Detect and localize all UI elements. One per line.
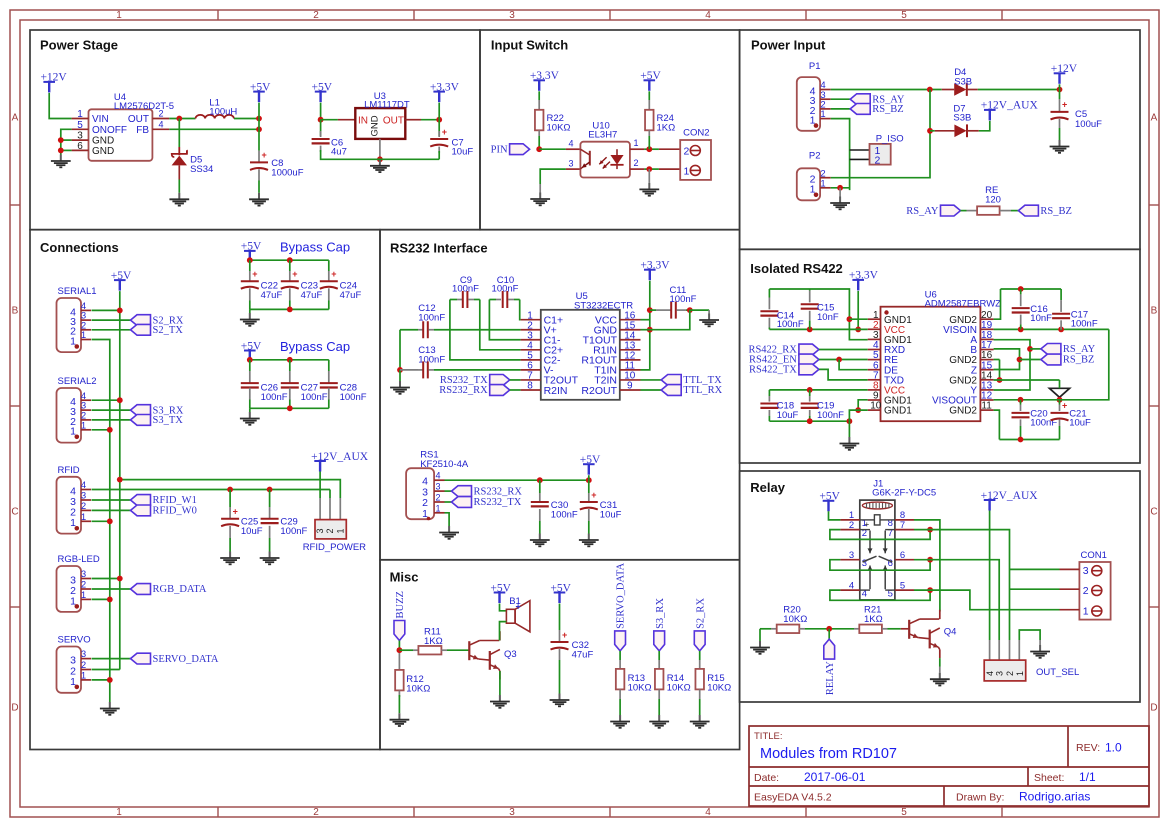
- svg-text:RFID: RFID: [58, 465, 80, 476]
- svg-text:2: 2: [81, 501, 86, 512]
- svg-text:3: 3: [509, 10, 515, 21]
- svg-text:+: +: [1062, 100, 1067, 110]
- svg-text:1: 1: [81, 590, 86, 601]
- svg-text:+: +: [252, 269, 257, 279]
- svg-text:+: +: [562, 630, 567, 640]
- svg-text:4u7: 4u7: [331, 146, 347, 157]
- svg-text:Bypass Cap: Bypass Cap: [280, 339, 350, 354]
- svg-text:10nF: 10nF: [1030, 313, 1052, 324]
- svg-text:10KΩ: 10KΩ: [547, 122, 571, 133]
- svg-text:100nF: 100nF: [492, 284, 519, 295]
- svg-text:4: 4: [435, 471, 440, 481]
- svg-text:SERIAL1: SERIAL1: [58, 286, 97, 297]
- svg-text:100nF: 100nF: [817, 410, 844, 421]
- svg-text:2: 2: [81, 660, 86, 671]
- svg-text:Connections: Connections: [40, 240, 119, 255]
- svg-text:4: 4: [81, 480, 86, 491]
- svg-text:10KΩ: 10KΩ: [406, 684, 430, 695]
- svg-text:4: 4: [705, 10, 711, 21]
- svg-text:CON2: CON2: [683, 128, 709, 139]
- svg-text:LM1117DT: LM1117DT: [364, 100, 410, 111]
- svg-text:2: 2: [633, 158, 638, 168]
- svg-text:FB: FB: [136, 125, 149, 136]
- svg-text:+: +: [1062, 401, 1067, 411]
- svg-text:2: 2: [1005, 671, 1015, 676]
- svg-text:+: +: [331, 269, 336, 279]
- svg-text:PIN: PIN: [491, 144, 508, 155]
- svg-text:10KΩ: 10KΩ: [707, 683, 731, 694]
- svg-text:P1: P1: [809, 61, 821, 72]
- svg-text:3: 3: [81, 569, 86, 580]
- svg-text:GND2: GND2: [949, 406, 977, 417]
- svg-text:10uF: 10uF: [1069, 418, 1091, 429]
- svg-text:OUT_SEL: OUT_SEL: [1036, 667, 1079, 678]
- svg-text:Power Input: Power Input: [751, 38, 826, 53]
- svg-text:Power Stage: Power Stage: [40, 38, 118, 53]
- svg-text:1: 1: [81, 512, 86, 523]
- svg-text:Rodrigo.arias: Rodrigo.arias: [1019, 790, 1090, 804]
- svg-text:B: B: [12, 306, 19, 317]
- svg-text:1: 1: [81, 671, 86, 682]
- svg-text:10uF: 10uF: [600, 510, 622, 521]
- svg-text:1: 1: [435, 503, 440, 513]
- svg-text:Relay: Relay: [750, 480, 785, 495]
- svg-text:LM2576D2T-5: LM2576D2T-5: [114, 101, 174, 112]
- svg-text:5: 5: [77, 120, 83, 131]
- svg-text:SS34: SS34: [190, 164, 213, 175]
- svg-text:10uF: 10uF: [241, 526, 263, 537]
- svg-text:2: 2: [81, 580, 86, 591]
- svg-text:Input Switch: Input Switch: [491, 38, 568, 53]
- svg-text:8: 8: [527, 381, 533, 392]
- svg-text:4: 4: [705, 807, 711, 818]
- svg-text:RS_BZ: RS_BZ: [1040, 206, 1072, 217]
- svg-text:SERIAL2: SERIAL2: [58, 376, 97, 387]
- svg-text:10KΩ: 10KΩ: [628, 683, 652, 694]
- svg-text:3: 3: [995, 671, 1005, 676]
- svg-text:1: 1: [684, 165, 690, 177]
- svg-text:1: 1: [81, 420, 86, 431]
- svg-text:5: 5: [901, 10, 907, 21]
- svg-text:TITLE:: TITLE:: [754, 731, 783, 742]
- svg-text:100nF: 100nF: [301, 392, 328, 403]
- svg-text:100nF: 100nF: [261, 392, 288, 403]
- svg-text:SERVO_DATA: SERVO_DATA: [616, 562, 627, 628]
- svg-text:47uF: 47uF: [261, 290, 283, 301]
- svg-text:S3_TX: S3_TX: [153, 415, 184, 426]
- svg-text:5: 5: [900, 580, 905, 591]
- svg-text:RS_BZ: RS_BZ: [1063, 355, 1095, 366]
- svg-text:4: 4: [568, 139, 573, 149]
- svg-text:1: 1: [820, 178, 825, 189]
- svg-text:1: 1: [77, 109, 83, 120]
- svg-text:RS232_RX: RS232_RX: [474, 486, 523, 497]
- svg-text:3: 3: [862, 558, 867, 569]
- svg-text:Bypass Cap: Bypass Cap: [280, 240, 350, 255]
- svg-text:2: 2: [158, 109, 163, 119]
- svg-text:RGB-LED: RGB-LED: [58, 554, 100, 565]
- svg-text:RGB_DATA: RGB_DATA: [153, 584, 207, 595]
- svg-text:4: 4: [985, 671, 995, 676]
- svg-text:G6K-2F-Y-DC5: G6K-2F-Y-DC5: [872, 488, 936, 499]
- svg-text:SERVO_DATA: SERVO_DATA: [153, 654, 219, 665]
- svg-text:10uF: 10uF: [452, 146, 474, 157]
- svg-text:C: C: [11, 507, 18, 518]
- svg-text:1KΩ: 1KΩ: [864, 614, 883, 625]
- svg-text:B: B: [1151, 306, 1158, 317]
- svg-text:ADM2587EBRWZ: ADM2587EBRWZ: [925, 299, 1002, 310]
- svg-text:C: C: [1150, 507, 1157, 518]
- svg-text:2: 2: [325, 528, 335, 533]
- svg-text:A: A: [12, 113, 19, 124]
- svg-text:2: 2: [684, 145, 690, 157]
- svg-text:6: 6: [77, 141, 83, 152]
- svg-text:1KΩ: 1KΩ: [657, 122, 676, 133]
- svg-text:Sheet:: Sheet:: [1034, 772, 1064, 784]
- svg-text:47uF: 47uF: [572, 650, 594, 661]
- svg-text:RFID_W0: RFID_W0: [153, 506, 197, 517]
- svg-text:GND: GND: [370, 115, 381, 136]
- svg-text:CON1: CON1: [1081, 550, 1107, 561]
- svg-text:VIN: VIN: [92, 114, 109, 125]
- svg-text:2017-06-01: 2017-06-01: [804, 770, 866, 784]
- svg-text:10nF: 10nF: [817, 312, 839, 323]
- svg-text:47uF: 47uF: [301, 290, 323, 301]
- svg-text:47uF: 47uF: [340, 290, 362, 301]
- svg-text:4: 4: [849, 580, 854, 591]
- svg-text:1: 1: [116, 10, 122, 21]
- svg-text:1: 1: [1083, 605, 1089, 617]
- svg-text:10KΩ: 10KΩ: [667, 683, 691, 694]
- svg-text:2: 2: [313, 10, 319, 21]
- svg-text:100uF: 100uF: [1075, 119, 1102, 130]
- svg-text:1: 1: [1015, 671, 1025, 676]
- svg-text:OUT: OUT: [383, 115, 404, 126]
- svg-text:1: 1: [820, 109, 825, 120]
- svg-text:100nF: 100nF: [452, 284, 479, 295]
- svg-text:TTL_RX: TTL_RX: [683, 385, 722, 396]
- svg-text:P_ISO: P_ISO: [876, 134, 904, 145]
- svg-text:S2_TX: S2_TX: [153, 325, 184, 336]
- svg-text:S3_RX: S3_RX: [655, 598, 666, 629]
- svg-text:100nF: 100nF: [1071, 319, 1098, 330]
- svg-text:3: 3: [315, 528, 325, 533]
- svg-text:EasyEDA V4.5.2: EasyEDA V4.5.2: [754, 792, 832, 804]
- svg-text:100uH: 100uH: [209, 106, 237, 117]
- svg-text:+: +: [516, 602, 521, 612]
- svg-text:D: D: [1150, 703, 1157, 714]
- svg-text:Date:: Date:: [754, 772, 779, 784]
- svg-text:+: +: [442, 127, 447, 137]
- svg-text:P2: P2: [809, 151, 821, 162]
- svg-text:+: +: [292, 269, 297, 279]
- svg-text:100nF: 100nF: [340, 392, 367, 403]
- svg-text:10KΩ: 10KΩ: [783, 614, 807, 625]
- svg-text:1000uF: 1000uF: [271, 167, 303, 178]
- svg-text:GND1: GND1: [884, 406, 912, 417]
- svg-text:1.0: 1.0: [1105, 741, 1122, 755]
- svg-text:RS422_TX: RS422_TX: [749, 365, 797, 376]
- svg-text:RS232_RX: RS232_RX: [439, 385, 488, 396]
- svg-text:7: 7: [900, 520, 905, 531]
- svg-text:120: 120: [985, 194, 1001, 205]
- svg-text:2: 2: [1083, 585, 1089, 597]
- svg-text:9: 9: [627, 381, 633, 392]
- svg-text:100nF: 100nF: [777, 319, 804, 330]
- svg-text:RS232_TX: RS232_TX: [474, 497, 522, 508]
- svg-text:2: 2: [849, 520, 854, 531]
- svg-text:+: +: [591, 490, 596, 500]
- svg-text:11: 11: [981, 401, 992, 412]
- svg-text:3: 3: [435, 482, 440, 492]
- svg-text:2: 2: [875, 155, 881, 167]
- svg-text:1: 1: [81, 330, 86, 341]
- svg-text:1: 1: [116, 807, 122, 818]
- svg-text:RELAY: RELAY: [825, 661, 836, 695]
- svg-text:ONOFF: ONOFF: [92, 125, 127, 136]
- svg-text:3: 3: [81, 649, 86, 660]
- svg-text:1KΩ: 1KΩ: [424, 636, 443, 647]
- svg-text:REV:: REV:: [1076, 742, 1100, 754]
- svg-text:+: +: [262, 150, 267, 160]
- svg-text:+: +: [233, 507, 238, 517]
- svg-text:3: 3: [81, 491, 86, 502]
- svg-text:6: 6: [900, 550, 905, 561]
- svg-text:3: 3: [849, 550, 854, 561]
- svg-text:S3B: S3B: [953, 113, 971, 124]
- svg-text:SERVO: SERVO: [58, 635, 91, 646]
- svg-text:100nF: 100nF: [670, 294, 697, 305]
- svg-text:3: 3: [568, 159, 573, 169]
- svg-text:RS_AY: RS_AY: [906, 206, 939, 217]
- svg-text:4: 4: [158, 119, 163, 129]
- svg-text:Drawn By:: Drawn By:: [956, 792, 1004, 804]
- svg-text:S2_RX: S2_RX: [695, 598, 706, 629]
- svg-text:1: 1: [335, 528, 345, 533]
- svg-text:1/1: 1/1: [1079, 770, 1096, 784]
- svg-text:100nF: 100nF: [280, 526, 307, 537]
- svg-text:EL3H7: EL3H7: [588, 129, 617, 140]
- svg-text:R2IN: R2IN: [544, 385, 568, 397]
- svg-text:RS232 Interface: RS232 Interface: [390, 241, 488, 256]
- svg-text:10: 10: [870, 401, 882, 412]
- svg-text:Isolated RS422: Isolated RS422: [750, 261, 843, 276]
- svg-text:2: 2: [313, 807, 319, 818]
- svg-text:3: 3: [1083, 565, 1089, 577]
- svg-text:D: D: [11, 703, 18, 714]
- svg-text:IN: IN: [358, 115, 368, 126]
- svg-text:R2OUT: R2OUT: [581, 385, 617, 397]
- svg-text:Q4: Q4: [944, 627, 957, 638]
- svg-text:5: 5: [901, 807, 907, 818]
- svg-text:A: A: [1151, 113, 1158, 124]
- svg-text:RS_BZ: RS_BZ: [872, 104, 904, 115]
- svg-text:RFID_W1: RFID_W1: [153, 495, 197, 506]
- svg-text:10uF: 10uF: [777, 410, 799, 421]
- svg-text:3: 3: [509, 807, 515, 818]
- svg-text:100nF: 100nF: [551, 510, 578, 521]
- svg-text:GND: GND: [92, 146, 114, 157]
- svg-text:BUZZ: BUZZ: [395, 591, 406, 618]
- svg-text:OUT: OUT: [128, 114, 149, 125]
- svg-text:2: 2: [435, 493, 440, 503]
- svg-text:Modules from RD107: Modules from RD107: [760, 746, 897, 762]
- svg-text:RFID_POWER: RFID_POWER: [303, 542, 366, 553]
- svg-text:S3B: S3B: [954, 76, 972, 87]
- svg-text:Q3: Q3: [504, 649, 517, 660]
- svg-text:Misc: Misc: [390, 570, 419, 585]
- svg-text:1: 1: [633, 138, 638, 148]
- svg-text:RS_AY: RS_AY: [1063, 344, 1096, 355]
